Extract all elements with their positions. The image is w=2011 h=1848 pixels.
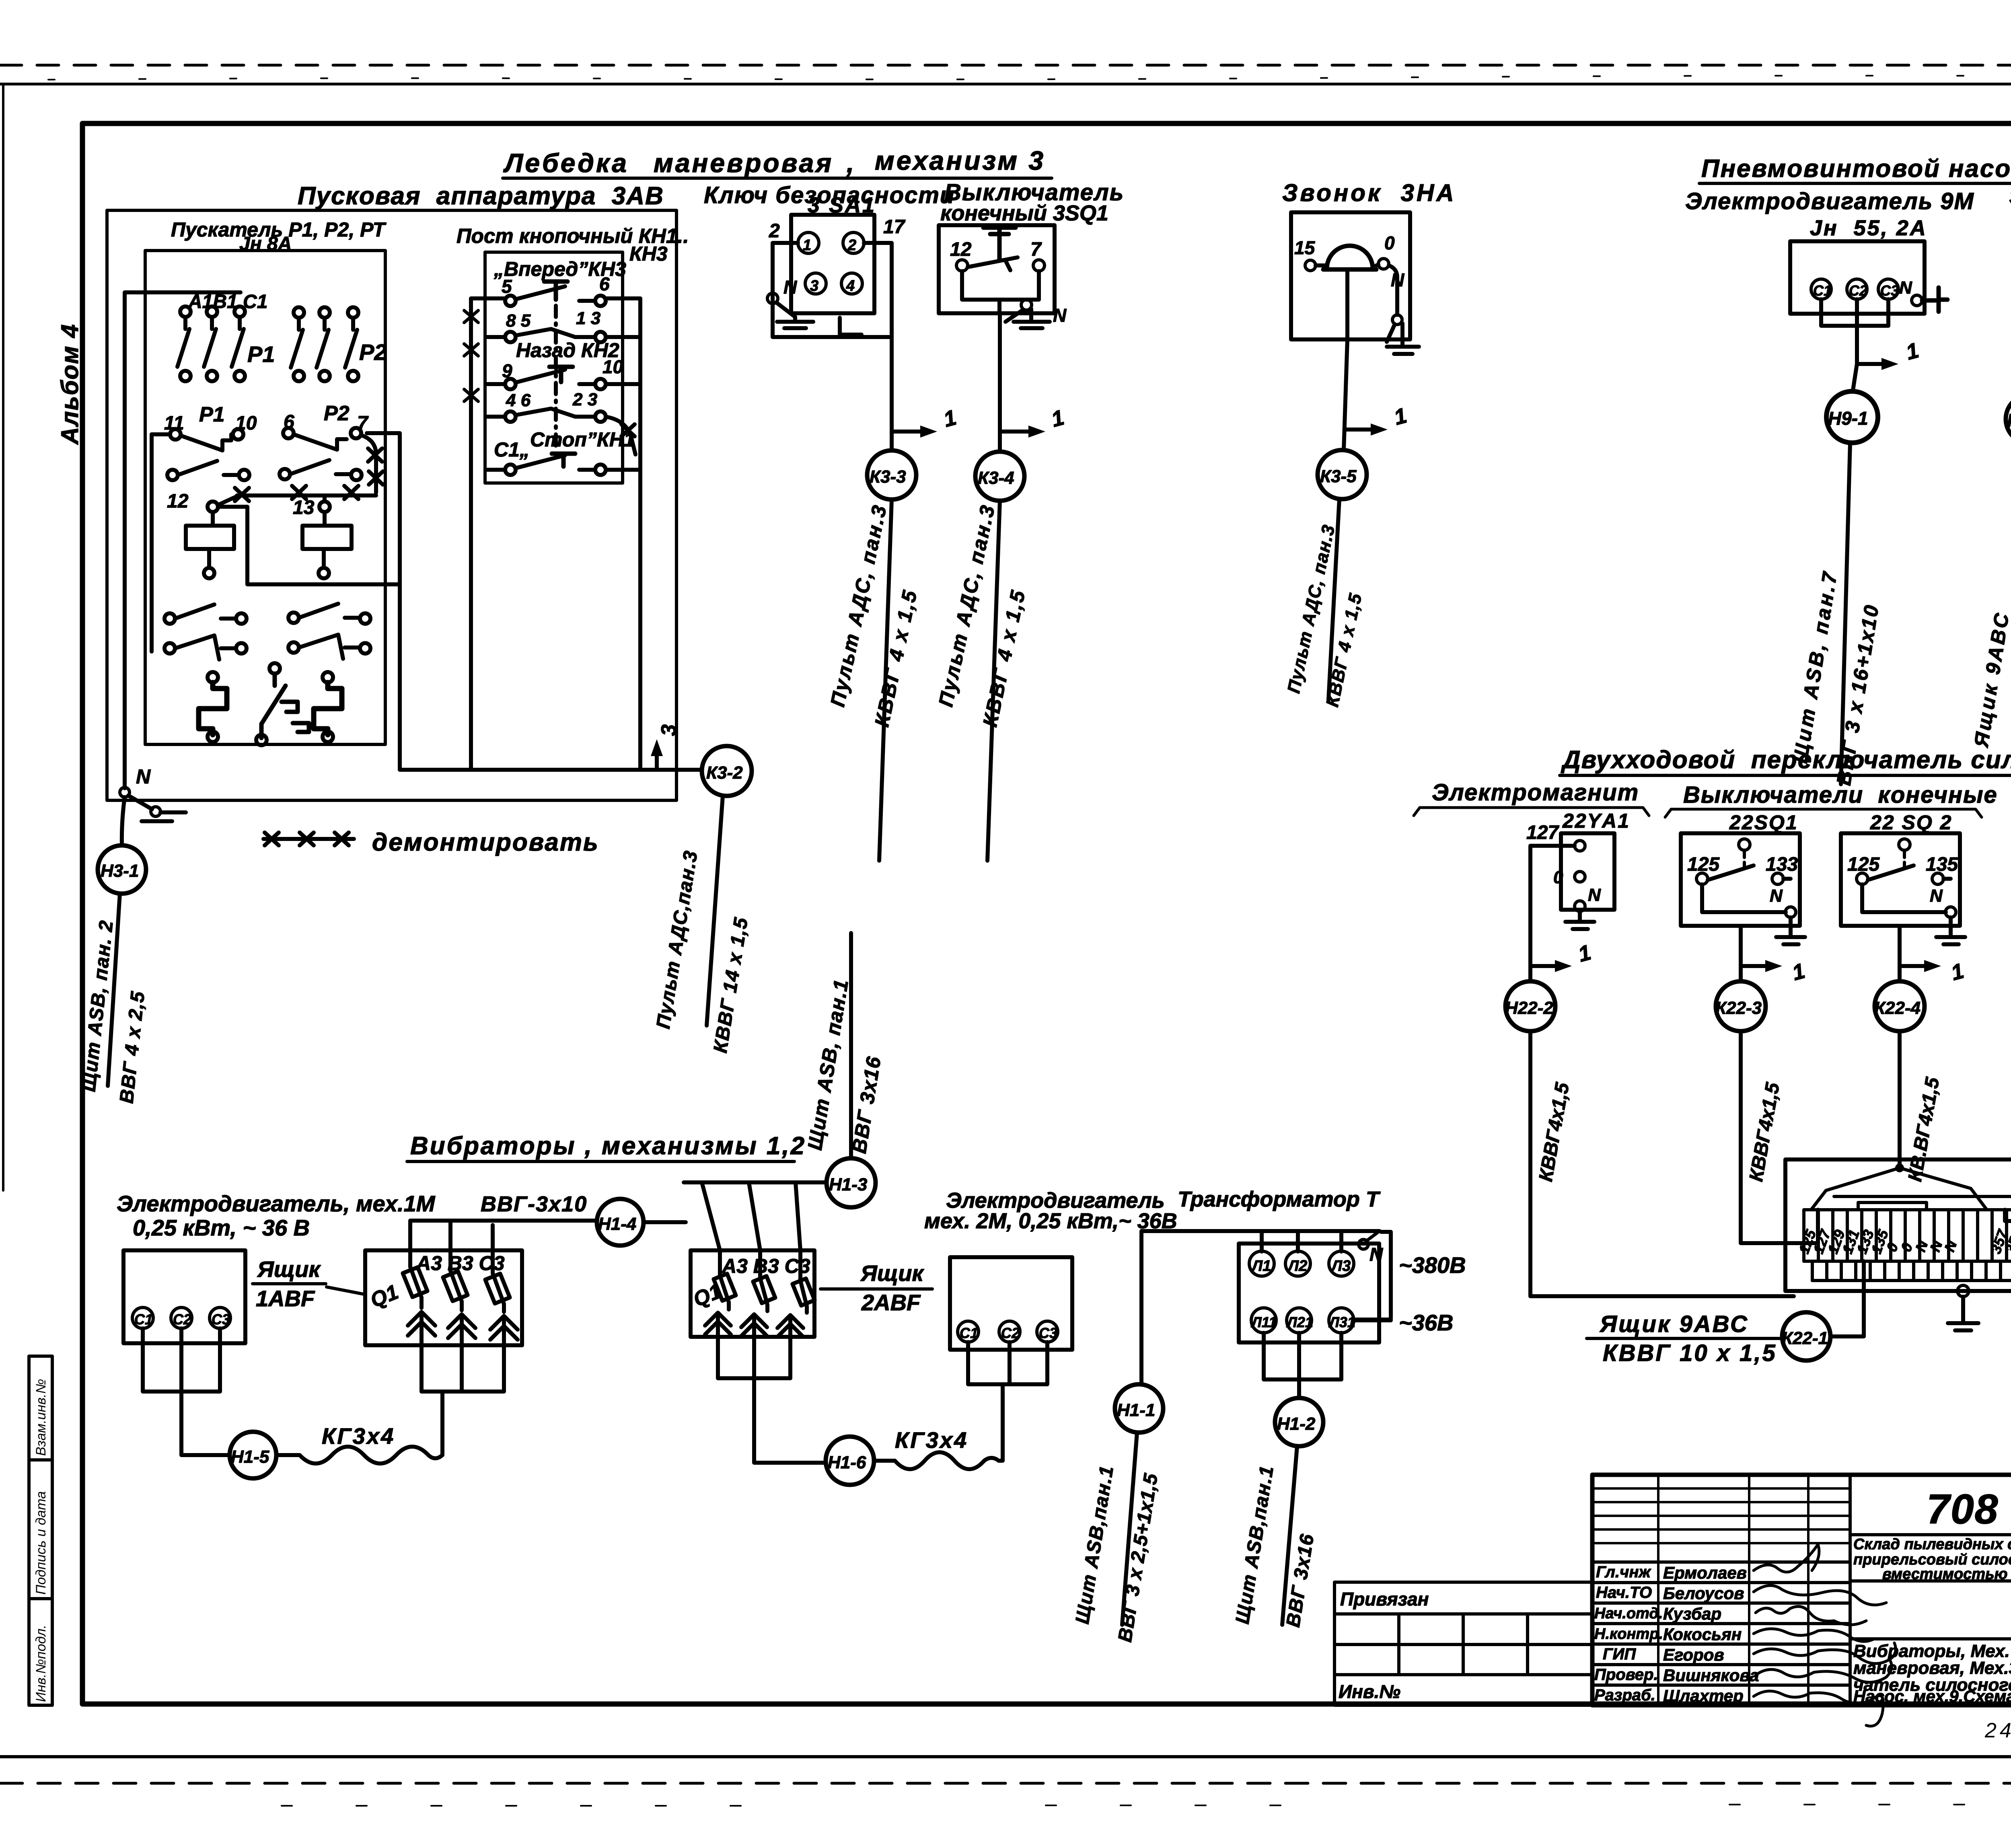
380V bracket xyxy=(1356,1232,1391,1320)
connection circle К22-4 xyxy=(1875,981,1925,1031)
svg-text:Вишнякова: Вишнякова xyxy=(1663,1666,1759,1685)
thermal element left xyxy=(199,672,227,742)
svg-text:КВВГ 10 х 1,5: КВВГ 10 х 1,5 xyxy=(1603,1340,1777,1366)
contact group P1 xyxy=(177,306,245,381)
wire ВВГ-3х10 bus xyxy=(410,1221,595,1256)
svg-text:6: 6 xyxy=(599,273,610,294)
svg-text:Ермолаев: Ермолаев xyxy=(1663,1563,1747,1582)
svg-text:,: , xyxy=(846,148,854,178)
svg-text:N: N xyxy=(783,277,797,298)
cable drop below К3-4 xyxy=(987,501,1000,861)
N terminal transformer xyxy=(1367,1231,1380,1241)
contacts 22SQ2 xyxy=(1857,873,1868,884)
wire from terminal 2 down to K3-3 xyxy=(864,243,892,450)
bell symbol xyxy=(1327,246,1373,269)
aux NO contact row 2 right xyxy=(280,460,362,480)
wire H22-2 to terminal box xyxy=(1530,1031,1794,1296)
bus under 2ABF xyxy=(718,1337,825,1463)
svg-text:Р1: Р1 xyxy=(247,341,275,367)
svg-text:Кокосьян: Кокосьян xyxy=(1663,1625,1742,1644)
terminal box 22ABX outer xyxy=(1785,1159,2011,1291)
wire K22-1 up to strip xyxy=(1831,1261,1864,1336)
contact KH3 xyxy=(505,286,606,306)
aux NO contact row 2 left xyxy=(167,461,249,480)
svg-text:Альбом 4: Альбом 4 xyxy=(56,323,83,445)
svg-text:~380В: ~380В xyxy=(1399,1252,1466,1278)
motor box 9M xyxy=(1790,241,1925,314)
svg-text:А3 В3 С3: А3 В3 С3 xyxy=(415,1252,505,1274)
limit switch box 22SQ2 xyxy=(1841,833,1960,926)
wire H1-3 horizontal xyxy=(684,1180,827,1184)
svg-text:Электромагниты вентилей: Электромагниты вентилей xyxy=(2009,184,2011,209)
svg-text:Jн 55, 2А: Jн 55, 2А xyxy=(1810,216,1927,240)
connection circle Н1-6 xyxy=(826,1437,874,1485)
branch arrow 1 for H22-2 xyxy=(1530,964,1564,968)
svg-text:К22-1: К22-1 xyxy=(1782,1328,1828,1348)
wire H1-1 riser and primary feed xyxy=(1141,1231,1380,1384)
svg-text:Привязан: Привязан xyxy=(1340,1589,1429,1610)
svg-text:ВВГ-3х10: ВВГ-3х10 xyxy=(481,1192,587,1216)
svg-text:Л2: Л2 xyxy=(1287,1258,1307,1274)
N ground under 3SQ1 xyxy=(997,300,1001,313)
cable drop below К3-3 xyxy=(879,500,892,861)
svg-text:7: 7 xyxy=(1030,239,1042,260)
svg-text:С3: С3 xyxy=(1039,1325,1057,1341)
wire Л31 to 36V xyxy=(1354,1318,1391,1322)
cable drop below K3-2 xyxy=(707,796,723,1026)
svg-text:2: 2 xyxy=(769,220,780,242)
contact KH2 xyxy=(487,370,640,389)
connection circle К3-5 xyxy=(1318,450,1367,499)
branch arrow 1 for K3-3 xyxy=(892,430,929,434)
fuse switches 1ABF xyxy=(403,1250,510,1312)
svg-text:22 SQ 2: 22 SQ 2 xyxy=(1870,811,1952,834)
slant feeders into 2ABF xyxy=(702,1182,800,1250)
ground 22YA1 xyxy=(1565,911,1594,929)
aux contact row 4 right with hook xyxy=(288,635,370,659)
connection circle Н9-2 xyxy=(2006,395,2011,444)
svg-text:Л31: Л31 xyxy=(1328,1314,1355,1330)
svg-text:Электродвигатель 9М: Электродвигатель 9М xyxy=(1685,188,1974,214)
terminal C3 xyxy=(1878,279,1898,299)
svg-text:3: 3 xyxy=(810,278,818,294)
svg-text:Электромагнит: Электромагнит xyxy=(1432,779,1639,806)
cable drop below Н3-1 xyxy=(108,894,120,1086)
limit switch box 22SQ1 xyxy=(1681,833,1800,926)
svg-text:13: 13 xyxy=(293,497,315,518)
terminal C2 xyxy=(999,1321,1020,1342)
aux NO contact row 3 left xyxy=(164,604,247,624)
svg-text:4 6: 4 6 xyxy=(506,391,531,410)
svg-text:N: N xyxy=(1930,886,1943,906)
svg-text:127: 127 xyxy=(1526,822,1559,843)
svg-text:12: 12 xyxy=(950,239,972,260)
svg-text:Провер.: Провер. xyxy=(1594,1666,1658,1684)
aux contact row 4 left with hook xyxy=(164,635,247,660)
svg-text:С2: С2 xyxy=(1001,1325,1020,1341)
terminal C2 xyxy=(1847,279,1867,299)
terminal 1 xyxy=(798,232,819,253)
left rail of button station xyxy=(471,298,505,770)
title block left grid xyxy=(1592,1475,1850,1705)
svg-text:ГИП: ГИП xyxy=(1603,1645,1636,1663)
magnetic starter box P1 P2 PT xyxy=(145,251,385,744)
motor box 2M xyxy=(950,1257,1072,1350)
branch arrow 1 for H9-1 xyxy=(1857,362,1890,366)
wavy cable H1-6 xyxy=(874,1452,999,1469)
motor 1M bus xyxy=(143,1328,229,1455)
svg-text:К22-4: К22-4 xyxy=(1874,998,1921,1018)
svg-text:8 5: 8 5 xyxy=(506,311,531,331)
svg-text:N: N xyxy=(136,765,151,788)
svg-text:С2: С2 xyxy=(173,1311,191,1328)
svg-text:Р2: Р2 xyxy=(324,402,350,425)
left inventory strip xyxy=(29,1356,52,1705)
svg-text:Н9-2: Н9-2 xyxy=(2007,410,2011,431)
svg-text:Подпись и дата: Подпись и дата xyxy=(33,1491,49,1595)
svg-text:Н1-4: Н1-4 xyxy=(598,1214,636,1234)
wire down to K3-4 xyxy=(998,313,1002,452)
group box 3AB xyxy=(107,210,677,800)
svg-text:С1: С1 xyxy=(134,1311,153,1328)
primary terminals Л1 Л2 Л3 xyxy=(1262,1231,1341,1252)
svg-text:Стоп”КН1: Стоп”КН1 xyxy=(530,428,635,451)
wire 12 step down to feeder xyxy=(218,507,400,584)
wire to K3-2 xyxy=(400,768,702,772)
svg-text:Ящик: Ящик xyxy=(860,1260,924,1286)
switch contacts xyxy=(956,260,968,271)
svg-text:К3-3: К3-3 xyxy=(870,467,906,487)
thermal relay middle with slash xyxy=(256,663,309,745)
svg-text:Звонок 3НА: Звонок 3НА xyxy=(1282,179,1456,206)
branch arrow 1 for K22-3 xyxy=(1741,964,1774,968)
terminal C1 xyxy=(958,1321,979,1342)
wire 22YA1 to H22-2 xyxy=(1530,846,1575,981)
legend демонтировать xyxy=(263,833,354,845)
svg-text:~36В: ~36В xyxy=(1399,1310,1453,1335)
svg-text:С1: С1 xyxy=(960,1325,978,1341)
svg-text:Гл.чнж: Гл.чнж xyxy=(1596,1563,1652,1581)
wire 22SQ2 to K22-4 xyxy=(1898,926,1902,981)
motor box 1M xyxy=(123,1250,245,1343)
branch arrow 1 for K22-4 xyxy=(1900,964,1933,968)
terminal strip cells xyxy=(1804,1210,2011,1281)
svg-text:15: 15 xyxy=(1294,237,1316,258)
cable drop below Н1-1 xyxy=(1122,1433,1137,1625)
signatures scribbles xyxy=(1754,1544,1896,1726)
svg-text:Инв.№подл.: Инв.№подл. xyxy=(33,1625,49,1702)
x marks on left rail xyxy=(464,310,478,401)
cable drop below Н9-1 xyxy=(1841,443,1850,784)
svg-text:механизм 3: механизм 3 xyxy=(875,146,1045,175)
title block outer xyxy=(1592,1475,2011,1705)
svg-text:135: 135 xyxy=(1926,854,1958,875)
svg-text:Егоров: Егоров xyxy=(1663,1645,1724,1664)
svg-text:10: 10 xyxy=(602,356,623,377)
arrow 3 up xyxy=(655,746,659,770)
svg-text:1: 1 xyxy=(803,237,811,254)
svg-text:24533 - 04: 24533 - 04 xyxy=(1984,1719,2011,1742)
svg-text:Разраб.: Разраб. xyxy=(1594,1686,1655,1704)
aux contacts row 2 xyxy=(487,409,635,454)
svg-text:2: 2 xyxy=(847,237,856,254)
svg-text:Р2: Р2 xyxy=(359,339,387,365)
svg-text:КГ3х4: КГ3х4 xyxy=(322,1423,395,1449)
connection circle Н9-1 xyxy=(1826,391,1878,443)
inner U wire xyxy=(962,271,1039,300)
svg-text:Н1-1: Н1-1 xyxy=(1117,1400,1155,1420)
ground 22SQ2 xyxy=(1936,917,1965,944)
code cell 708-57.90-ЭМ xyxy=(1850,1533,2011,1536)
cable drop below Н1-2 xyxy=(1282,1446,1297,1625)
connection circle Н1-1 xyxy=(1115,1384,1163,1433)
push button station box xyxy=(485,252,623,483)
actuator circle xyxy=(1899,839,1910,850)
fuse box 1ABF xyxy=(365,1250,522,1345)
inner U and N terminal xyxy=(1862,884,1946,912)
svg-text:2АВF: 2АВF xyxy=(861,1290,921,1315)
svg-text:N: N xyxy=(1053,305,1067,326)
svg-text:133: 133 xyxy=(1766,854,1798,875)
ground under terminal box xyxy=(1958,1285,1969,1297)
svg-text:Двухходовой переключатель сил: Двухходовой переключатель силосного корп… xyxy=(1561,746,2011,774)
wire 22SQ1 to K22-3 xyxy=(1739,926,1743,981)
svg-text:С3: С3 xyxy=(212,1311,230,1328)
svg-text:Н1-5: Н1-5 xyxy=(231,1447,269,1467)
svg-text:Электродвигатель, мех.1М: Электродвигатель, мех.1М xyxy=(117,1191,436,1216)
svg-text:К3-2: К3-2 xyxy=(706,763,743,783)
svg-text:конечный 3SQ1: конечный 3SQ1 xyxy=(940,201,1108,225)
chevron arrows 1ABF xyxy=(408,1312,518,1345)
signature rows xyxy=(1594,1563,1759,1705)
svg-text:22YА1: 22YА1 xyxy=(1562,810,1630,832)
branch arrow 1 for K3-4 xyxy=(1000,430,1037,434)
motor bus xyxy=(1821,299,1888,364)
svg-text:Р1: Р1 xyxy=(199,403,225,426)
transformer box T xyxy=(1239,1244,1379,1342)
svg-text:С1: С1 xyxy=(1813,282,1832,299)
chevron arrows 2ABF xyxy=(705,1313,803,1337)
wire from bell to K3-5 xyxy=(1344,270,1347,450)
svg-text:маневровая: маневровая xyxy=(654,148,833,178)
contacts 22SQ1 xyxy=(1696,873,1708,884)
ground 22SQ1 xyxy=(1776,917,1805,944)
svg-text:К3-4: К3-4 xyxy=(978,468,1014,488)
svg-text:Белоусов: Белоусов xyxy=(1663,1584,1744,1603)
safety key box 3SA1 xyxy=(791,215,874,313)
button KH1 actuator xyxy=(552,454,575,467)
svg-text:4: 4 xyxy=(846,278,855,294)
aux NO contact row 3 right xyxy=(288,604,370,624)
svg-text:Кузбар: Кузбар xyxy=(1663,1604,1721,1623)
internal jumper wires xyxy=(1811,1168,2011,1210)
svg-text:Выключатели конечные: Выключатели конечные xyxy=(1683,782,1998,808)
terminal C1 xyxy=(1811,279,1831,299)
svg-text:708 - 57. 90 -ЭМ: 708 - 57. 90 -ЭМ xyxy=(1927,1486,2011,1533)
svg-text:12: 12 xyxy=(167,491,189,512)
svg-text:К3-5: К3-5 xyxy=(1320,467,1357,486)
solenoid box 22YA1 xyxy=(1561,833,1614,910)
aux NC contact 6-7 xyxy=(283,428,383,493)
secondary terminals Л11 Л21 Л31 xyxy=(1251,1308,1276,1333)
svg-text:Пневмовинтовой насос, механизм: Пневмовинтовой насос, механизм 9 xyxy=(1701,155,2011,183)
svg-text:Склад пылевидных строительных: Склад пылевидных строительных материалов xyxy=(1853,1536,2011,1553)
wire feeder top bus xyxy=(125,292,241,788)
contact KH1 xyxy=(487,455,640,475)
aux contacts row xyxy=(487,329,640,342)
wire K22-3 to terminal box xyxy=(1741,1031,1818,1243)
svg-text:Насос, мех.9.Схема подключени: Насос, мех.9.Схема подключения xyxy=(1853,1687,2011,1706)
svg-text:Ящик 9АВС: Ящик 9АВС xyxy=(1599,1311,1749,1337)
wire to H9-1 xyxy=(1853,364,1857,390)
connection circle К3-3 xyxy=(867,450,916,500)
motor 2M bus xyxy=(968,1342,1047,1461)
wavy cable H1-5 xyxy=(276,1447,442,1464)
svg-text:2 3: 2 3 xyxy=(572,390,597,409)
svg-text:0: 0 xyxy=(1553,867,1563,887)
button KH2 actuator xyxy=(549,367,573,382)
demontage wire with x marks xyxy=(218,486,376,505)
svg-text:3: 3 xyxy=(657,724,681,736)
svg-text:Нач.отд.: Нач.отд. xyxy=(1594,1605,1663,1622)
svg-text:Н22-2: Н22-2 xyxy=(1505,998,1553,1018)
fuse box 2ABF xyxy=(691,1250,814,1337)
svg-text:А3 В3 С3: А3 В3 С3 xyxy=(721,1255,810,1277)
wire from terminal 1 to N ground xyxy=(773,243,892,337)
attachment block Привязан xyxy=(1334,1582,1592,1705)
svg-text:Л3: Л3 xyxy=(1330,1258,1351,1274)
wire right feeder to K3-2 line xyxy=(367,433,400,770)
connection circle К3-4 xyxy=(975,452,1024,501)
svg-text:КГ3х4: КГ3х4 xyxy=(895,1427,968,1453)
svg-text:0,25 кВт, ~ 36 В: 0,25 кВт, ~ 36 В xyxy=(133,1215,310,1240)
svg-text:N: N xyxy=(1588,885,1601,905)
terminals 22YA1 xyxy=(1575,841,1585,851)
connection circle Н1-2 xyxy=(1275,1398,1323,1446)
limit switch box 3SQ1 xyxy=(939,225,1055,313)
svg-text:КН3: КН3 xyxy=(629,243,668,265)
right rail of button station xyxy=(605,298,640,770)
terminal numbers xyxy=(1795,1227,2011,1256)
description cell xyxy=(1850,1579,2011,1583)
aux NC contact 11-10 xyxy=(152,429,243,450)
svg-text:Шлахтер: Шлахтер xyxy=(1663,1686,1744,1705)
button KH3 actuator xyxy=(544,282,568,450)
svg-text:Нач.ТО: Нач.ТО xyxy=(1596,1584,1652,1601)
svg-text:Л1: Л1 xyxy=(1251,1258,1271,1274)
svg-text:Л21: Л21 xyxy=(1286,1314,1313,1330)
svg-text:Н.контр.: Н.контр. xyxy=(1594,1626,1663,1642)
left rail xyxy=(150,434,154,652)
bus under 1ABF xyxy=(422,1345,504,1455)
bell terminals xyxy=(1305,260,1316,271)
actuator circle xyxy=(1739,839,1750,850)
cable riser above H1-3 xyxy=(849,933,853,1158)
terminal 2 xyxy=(843,232,864,253)
contact group P2 xyxy=(291,307,358,381)
relay coil P1 xyxy=(186,502,234,578)
svg-text:Л11: Л11 xyxy=(1250,1314,1277,1330)
N terminal of 3SA1 xyxy=(767,293,778,304)
wire H22-5 to terminal box xyxy=(2005,1031,2011,1221)
transformer secondary bus xyxy=(1264,1333,1341,1398)
connection circle K3-2 xyxy=(702,746,752,796)
svg-text:С3: С3 xyxy=(1880,282,1899,299)
N drop with switch xyxy=(1389,265,1397,315)
svg-text:Взам.инв.№: Взам.инв.№ xyxy=(33,1379,49,1456)
svg-text:С2: С2 xyxy=(1849,282,1867,299)
connection circle Н1-5 xyxy=(230,1432,276,1478)
svg-text:Н1-2: Н1-2 xyxy=(1277,1414,1316,1434)
svg-text:Пусковая аппаратура 3АВ: Пусковая аппаратура 3АВ xyxy=(298,182,664,210)
svg-text:вместимостью 0,5 тыс. тонн: вместимостью 0,5 тыс. тонн xyxy=(1882,1566,2011,1583)
svg-text:1 3: 1 3 xyxy=(576,308,600,328)
terminal C3 xyxy=(1037,1321,1058,1342)
svg-text:Н9-1: Н9-1 xyxy=(1828,408,1868,429)
inner U and N terminal xyxy=(1702,884,1786,912)
svg-text:демонтировать: демонтировать xyxy=(372,828,599,856)
wire K22-4 to terminal box xyxy=(1898,1031,1902,1168)
connection circle Н1-3 xyxy=(827,1158,876,1207)
wire H1-4 to 2ABF feeders xyxy=(644,1220,686,1224)
svg-text:К22-3: К22-3 xyxy=(1715,998,1762,1018)
bell box 3HA xyxy=(1291,212,1410,339)
svg-text:Н1-6: Н1-6 xyxy=(828,1453,866,1472)
connection circle К22-1 xyxy=(1782,1312,1830,1361)
terminal C3 xyxy=(210,1307,230,1328)
terminal C1 xyxy=(132,1307,153,1328)
connection circle К22-3 xyxy=(1716,981,1766,1031)
handle symbol xyxy=(840,318,862,335)
cable drop below К3-5 xyxy=(1328,499,1339,700)
svg-text:Н3-1: Н3-1 xyxy=(101,861,139,881)
svg-text:мех. 2М, 0,25 кВт,~ 36В: мех. 2М, 0,25 кВт,~ 36В xyxy=(924,1209,1177,1233)
actuator T xyxy=(983,228,1016,259)
branch arrow 1 for K3-5 xyxy=(1345,428,1380,432)
svg-text:22SQ1: 22SQ1 xyxy=(1729,811,1798,834)
svg-text:Инв.№: Инв.№ xyxy=(1339,1681,1400,1702)
svg-text:Трансформатор Т: Трансформатор Т xyxy=(1178,1187,1381,1211)
stage cells xyxy=(1850,1581,2011,1639)
svg-text:Ящик: Ящик xyxy=(257,1256,321,1282)
terminal 3 xyxy=(805,273,826,294)
svg-text:N: N xyxy=(1770,886,1783,906)
svg-text:Лебедка: Лебедка xyxy=(503,148,629,178)
thermal element right xyxy=(314,672,342,742)
svg-text:С1„: С1„ xyxy=(494,438,530,461)
svg-text:Н1-3: Н1-3 xyxy=(829,1175,867,1194)
terminal 4 xyxy=(841,273,862,294)
relay coil P2 xyxy=(302,495,352,578)
svg-text:1АВF: 1АВF xyxy=(256,1286,315,1311)
connection circle Н3-1 xyxy=(98,845,146,894)
svg-text:0: 0 xyxy=(1384,232,1395,253)
fuse switches 2ABF xyxy=(714,1250,814,1313)
svg-text:17: 17 xyxy=(883,216,906,238)
svg-text:Вибраторы , механизмы 1,2: Вибраторы , механизмы 1,2 xyxy=(410,1132,806,1160)
leader to box 1ABF xyxy=(327,1287,364,1294)
terminal C2 xyxy=(171,1307,192,1328)
svg-text:N: N xyxy=(1899,278,1912,298)
connection circle Н22-2 xyxy=(1505,981,1555,1031)
svg-text:А1В1 С1: А1В1 С1 xyxy=(188,291,267,312)
connection circle Н1-4 xyxy=(597,1199,644,1246)
